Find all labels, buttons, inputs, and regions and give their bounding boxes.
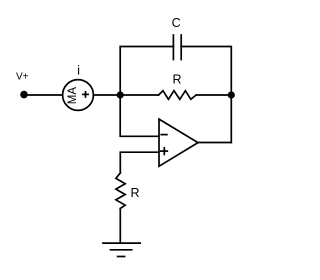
- wire ammeter to node A: [93, 94, 120, 96]
- op-amp non-inverting pin mark: [161, 150, 167, 152]
- svg-text:i: i: [77, 63, 80, 78]
- wire non-inverting input to resistor: [120, 152, 159, 173]
- wire node A up to capacitor: [120, 47, 173, 96]
- svg-text:R: R: [130, 186, 139, 200]
- capacitor C: [172, 35, 174, 60]
- ground: [103, 242, 140, 244]
- ammeter AM body: [63, 80, 94, 111]
- svg-text:MA: MA: [67, 87, 79, 105]
- node B junction: [228, 91, 235, 98]
- op-amp U1: [159, 119, 198, 166]
- wire capacitor to node B: [181, 47, 231, 96]
- resistor R feedback: [159, 91, 197, 100]
- node A junction: [117, 91, 124, 98]
- svg-text:R: R: [172, 72, 181, 86]
- ammeter plus terminal mark: [83, 93, 88, 95]
- resistor R to ground: [116, 173, 125, 209]
- node V+ terminal: [20, 91, 28, 99]
- wire resistor to ground: [119, 209, 121, 244]
- wire V+ to ammeter: [27, 94, 63, 96]
- wire node A to feedback resistor: [120, 94, 158, 96]
- wire node A down to inverting input: [120, 95, 159, 136]
- wire node B down to op-amp output: [230, 95, 232, 143]
- svg-text:V+: V+: [16, 72, 29, 83]
- wire feedback resistor to node B: [196, 94, 231, 96]
- op-amp inverting pin mark: [161, 134, 167, 136]
- wire op-amp output: [198, 142, 231, 144]
- svg-text:C: C: [172, 16, 181, 30]
